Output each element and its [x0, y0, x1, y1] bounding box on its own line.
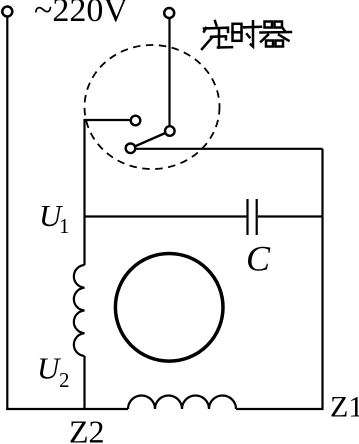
svg-text:C: C: [246, 239, 271, 279]
contact C: [126, 144, 136, 154]
wire: U1 branch with capacitor: [85, 215, 247, 217]
char 时: [233, 21, 262, 46]
wire: from contact C to right side: [136, 148, 323, 150]
char 器: [261, 22, 292, 47]
timer enclosure dashed circle: [85, 45, 220, 169]
svg-text:2: 2: [59, 368, 70, 392]
contact B: [131, 116, 141, 126]
svg-text:~220V: ~220V: [34, 0, 128, 29]
terminal left supply: [2, 7, 12, 17]
wire: bottom left segment: [6, 408, 128, 410]
char 定: [202, 21, 232, 49]
wire: from contact B left and down to U1 node: [85, 120, 130, 265]
wire: right supply line down to switch pivot: [168, 18, 170, 127]
motor circle: [115, 253, 223, 361]
secondary winding coil on bottom wire: [128, 396, 236, 410]
wire: right vertical side: [321, 149, 323, 410]
terminal right supply: [164, 8, 174, 18]
capacitor C plates: [246, 199, 248, 235]
svg-text:1: 1: [59, 214, 70, 238]
pivot A: [165, 126, 175, 136]
switch blade from contact C to pivot A: [131, 131, 170, 148]
label 定时器 (timer) drawn as strokes: [202, 21, 291, 49]
main winding coil on left vertical wire: [74, 265, 85, 356]
wire: left supply line down: [6, 17, 8, 411]
wire: bottom right segment: [236, 408, 323, 410]
svg-text:Z2: Z2: [69, 414, 105, 444]
wire: below coil to bottom: [83, 356, 85, 410]
svg-text:Z1: Z1: [330, 391, 359, 424]
